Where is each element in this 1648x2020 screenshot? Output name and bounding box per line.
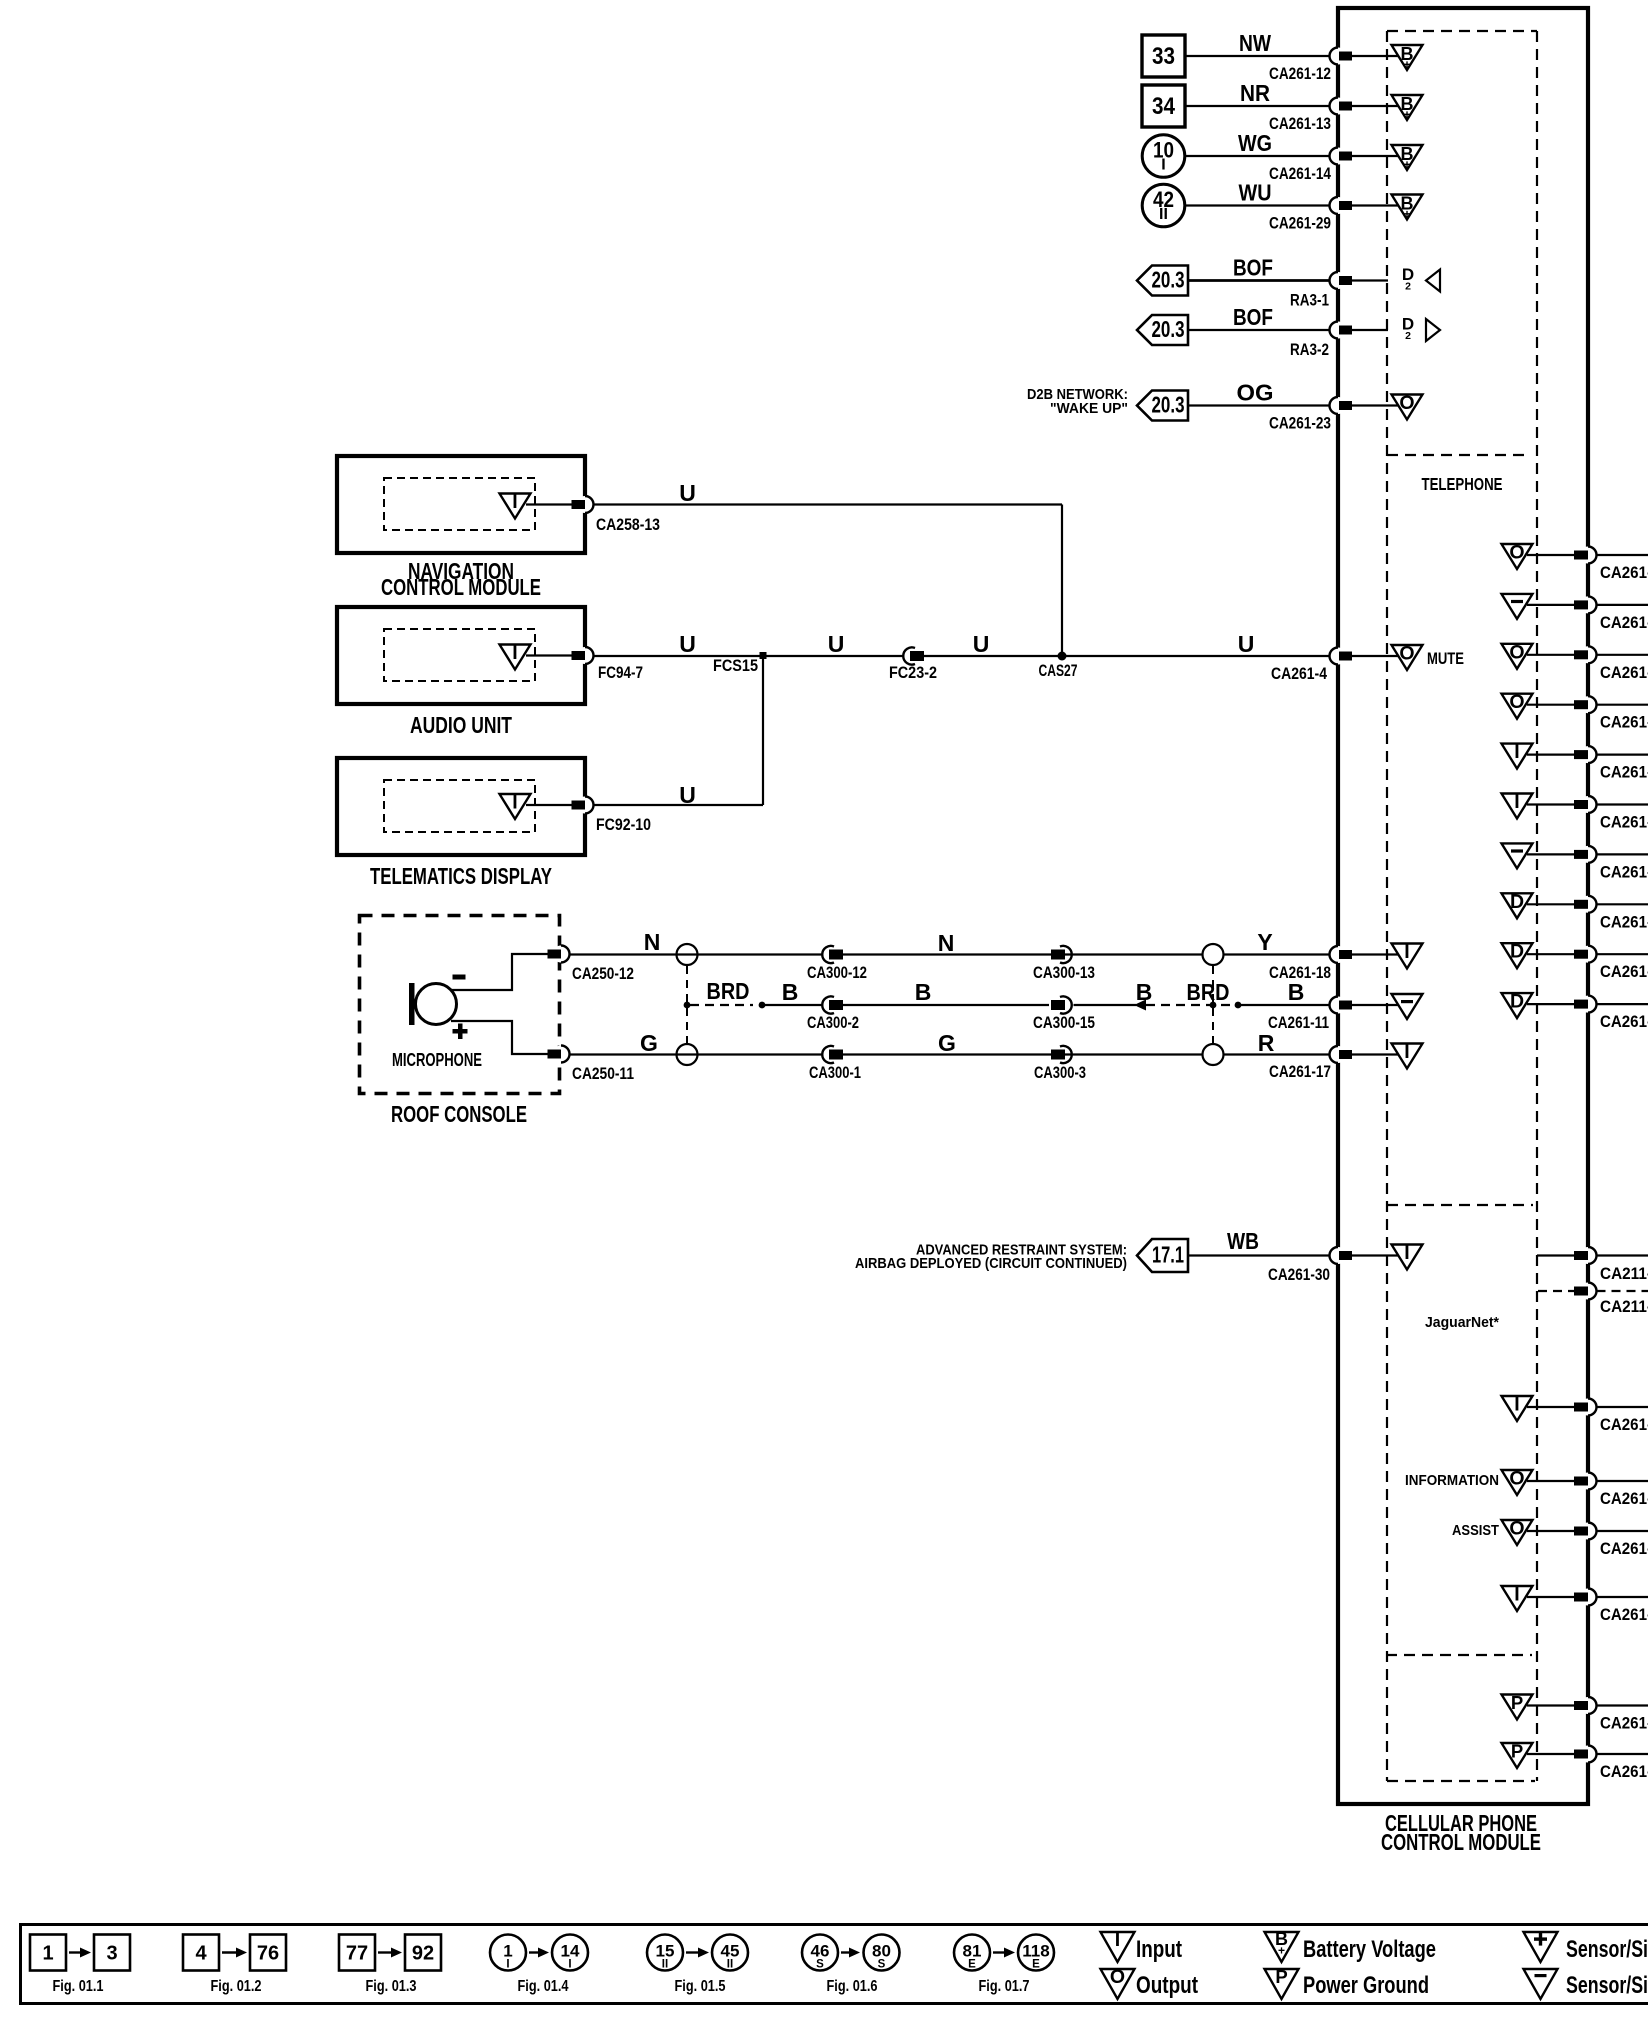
microphone minus wire [451, 954, 548, 990]
wire WU [1185, 180, 1330, 206]
svg-text:O: O [1399, 392, 1414, 414]
wire U audio to FCS15 [594, 631, 764, 657]
svg-text:I: I [506, 1959, 509, 1971]
svg-text:B: B [1288, 979, 1305, 1005]
wire B to module [1238, 979, 1330, 1005]
connector CA261 (right) [1574, 1697, 1648, 1733]
svg-text:CA261-11: CA261-11 [1268, 1014, 1329, 1032]
svg-text:FC23-2: FC23-2 [889, 664, 937, 682]
svg-text:JaguarNet*: JaguarNet* [1425, 1314, 1499, 1331]
wire B CA300-2 to CA300-15 [843, 979, 1049, 1005]
data symbol D2 left [1402, 265, 1440, 293]
svg-text:CA211-: CA211- [1600, 1298, 1648, 1316]
wire U CAS27 to module [1062, 631, 1330, 657]
svg-text:E: E [1032, 1959, 1040, 1971]
svg-text:CAS27: CAS27 [1039, 662, 1078, 680]
wire out right [1597, 1596, 1648, 1598]
svg-text:I: I [512, 792, 517, 814]
connector CA261 (right) [1574, 1523, 1648, 1559]
svg-text:CA261-4: CA261-4 [1271, 665, 1328, 683]
wire out right [1597, 704, 1648, 706]
wire to input symbol [1352, 1254, 1400, 1256]
wire out right [1597, 604, 1648, 606]
shield drain dashed left [686, 966, 688, 1044]
connector CA261 (right) [1574, 547, 1648, 583]
wire G CA300-3 to shield [843, 1030, 1203, 1056]
svg-text:AUDIO UNIT: AUDIO UNIT [410, 712, 512, 738]
wire to right connector [1527, 604, 1574, 606]
wire to right connector [1527, 1406, 1574, 1408]
wire to battery symbol [1352, 155, 1400, 157]
svg-text:II: II [1159, 206, 1168, 223]
connector CA261 (right) [1574, 796, 1648, 832]
legend fig 01.2 squares [183, 1935, 286, 1996]
svg-text:CA261-: CA261- [1600, 764, 1648, 782]
wire out right [1597, 853, 1648, 855]
svg-text:CA300-13: CA300-13 [1033, 964, 1095, 982]
wire U telematics [594, 782, 764, 808]
shield drain dashed right [1212, 966, 1214, 1044]
jaguarnet input symbol I [1502, 1394, 1533, 1422]
wire to right connector [1527, 803, 1574, 805]
svg-text:CA261-: CA261- [1600, 863, 1648, 881]
svg-text:D: D [1510, 991, 1524, 1013]
connector CA300-3 [1034, 1046, 1086, 1082]
splice dot on drain [684, 1002, 691, 1009]
svg-text:Input: Input [1136, 1936, 1182, 1963]
svg-text:B: B [782, 979, 799, 1005]
wire N roof console to CA300-12 [570, 929, 823, 955]
connector CA261 (right) [1574, 1399, 1648, 1435]
svg-text:17.1: 17.1 [1152, 1242, 1184, 1268]
telematics internal wire [526, 804, 572, 806]
wire CA211 row 1 [1537, 1254, 1574, 1256]
telephone data symbol D [1502, 941, 1533, 969]
svg-text:3: 3 [106, 1943, 117, 1965]
microphone plus mark [453, 1024, 468, 1040]
connector CA261 (right) [1574, 696, 1648, 732]
battery voltage symbol B+ [1392, 144, 1423, 172]
shield ring right N/Y [1203, 944, 1224, 965]
svg-text:CA261-: CA261- [1600, 614, 1648, 632]
connector CA211 (right, row 2) [1574, 1283, 1648, 1317]
label AUDIO UNIT [410, 712, 512, 738]
svg-text:G: G [938, 1030, 956, 1056]
wire stub RA3-2 [1352, 329, 1388, 331]
svg-text:BOF: BOF [1233, 304, 1273, 330]
svg-text:II: II [662, 1959, 668, 1971]
svg-text:CA261-30: CA261-30 [1268, 1266, 1330, 1284]
svg-text:20.3: 20.3 [1152, 267, 1185, 293]
connector CA261 (right) [1574, 646, 1648, 682]
svg-text:Fig. 01.6: Fig. 01.6 [827, 1978, 878, 1995]
component box ROOF CONSOLE (dashed) [360, 916, 560, 1094]
svg-text:CA261-: CA261- [1600, 1715, 1648, 1733]
svg-text:P: P [1511, 1692, 1523, 1713]
connector CA261-4 [1271, 648, 1352, 684]
svg-text:CA261-: CA261- [1600, 1540, 1648, 1558]
wire to right connector [1527, 853, 1574, 855]
connector CA261-18 [1269, 946, 1352, 982]
connector CA261 (right) [1574, 896, 1648, 932]
node 34 (in-line connector square) [1142, 85, 1185, 127]
connector CA261-17 [1269, 1046, 1352, 1081]
shield ring left G [677, 1044, 698, 1065]
svg-text:Fig. 01.5: Fig. 01.5 [675, 1978, 726, 1995]
module box: CELLULAR PHONE CONTROL MODULE outline [1338, 8, 1588, 1804]
shield ring right G/R [1203, 1044, 1224, 1065]
svg-text:O: O [1110, 1966, 1125, 1988]
wire to right connector [1527, 554, 1574, 556]
connector CA261-23 [1269, 397, 1352, 433]
wire to right connector [1527, 1480, 1574, 1482]
svg-text:O: O [1509, 1468, 1524, 1490]
svg-text:P: P [1511, 1741, 1523, 1762]
telephone data symbol D [1502, 891, 1533, 919]
svg-text:I: I [1115, 1929, 1120, 1951]
svg-text:CA250-11: CA250-11 [572, 1065, 634, 1083]
svg-text:WU: WU [1239, 180, 1272, 206]
svg-text:Fig. 01.7: Fig. 01.7 [979, 1978, 1030, 1995]
svg-text:CA261-23: CA261-23 [1269, 415, 1331, 433]
wire to right connector [1527, 903, 1574, 905]
connector CA261 (right) [1574, 1589, 1648, 1625]
svg-text:CONTROL MODULE: CONTROL MODULE [1381, 1829, 1541, 1855]
svg-text:I: I [568, 1959, 571, 1971]
svg-text:2: 2 [1405, 330, 1411, 342]
legend fig 01.4 circles [490, 1935, 588, 1996]
connector CA261 (right) [1574, 946, 1648, 982]
wire to right connector [1527, 704, 1574, 706]
wire to battery symbol [1352, 204, 1400, 206]
svg-text:Output: Output [1136, 1972, 1198, 1999]
svg-text:I: I [512, 642, 517, 664]
wire to input symbol [1352, 1053, 1400, 1055]
connector CA261 (right) [1574, 746, 1648, 782]
svg-text:Fig. 01.3: Fig. 01.3 [366, 1978, 417, 1995]
svg-text:Fig. 01.2: Fig. 01.2 [211, 1978, 262, 1995]
svg-text:I: I [1161, 157, 1165, 174]
svg-text:U: U [679, 782, 696, 808]
wire out right [1597, 753, 1648, 755]
battery voltage symbol B+ [1392, 94, 1423, 122]
connector RA3-1 [1290, 272, 1352, 310]
svg-text:CA261-17: CA261-17 [1269, 1063, 1331, 1081]
svg-text:N: N [938, 930, 955, 956]
wire NR [1185, 80, 1330, 106]
nav internal wire [526, 503, 572, 505]
wire to right connector [1527, 953, 1574, 955]
connector CA300-1 [809, 1046, 861, 1082]
jaguarnet input symbol I [1502, 1584, 1533, 1612]
svg-text:CA261-13: CA261-13 [1269, 115, 1331, 133]
svg-text:CA258-13: CA258-13 [596, 516, 660, 534]
wire out right [1597, 1480, 1648, 1482]
wire U vertical to CAS27 [1061, 505, 1063, 657]
svg-text:MICROPHONE: MICROPHONE [392, 1050, 482, 1070]
component box TELEMATICS DISPLAY [337, 758, 585, 855]
telephone signal ground symbol [1502, 843, 1533, 868]
telephone output symbol O [1502, 542, 1533, 570]
dashed divider below jaguarnet section [1386, 1654, 1532, 1656]
svg-text:I: I [1514, 791, 1519, 813]
dashed divider below battery/data section [1387, 454, 1531, 456]
wire WB [1188, 1228, 1330, 1256]
wire out right [1597, 1704, 1648, 1706]
svg-text:INFORMATION: INFORMATION [1405, 1472, 1499, 1489]
connector RA3-2 [1290, 322, 1352, 360]
drain arrowhead [1134, 1000, 1146, 1011]
svg-text:+: + [1278, 1944, 1285, 1958]
svg-text:92: 92 [412, 1943, 434, 1965]
connector CA258-13 [572, 496, 661, 534]
nav input symbol I [500, 491, 531, 519]
svg-text:Power Ground: Power Ground [1303, 1972, 1429, 1999]
legend fig 01.6 circles [802, 1935, 900, 1996]
wire stub RA3-1 [1352, 279, 1388, 281]
svg-text:76: 76 [257, 1943, 279, 1965]
node 33 (in-line connector square) [1142, 35, 1185, 77]
data symbol D2 right [1402, 315, 1440, 343]
svg-text:O: O [1509, 542, 1524, 564]
wire Y to module [1224, 929, 1330, 955]
svg-text:77: 77 [346, 1943, 368, 1965]
svg-text:D: D [1510, 891, 1524, 913]
svg-text:+: + [1403, 207, 1410, 221]
svg-text:Fig. 01.4: Fig. 01.4 [518, 1978, 569, 1995]
off-page arrow 20.3 (D2B network) [1137, 391, 1188, 421]
svg-text:MUTE: MUTE [1427, 650, 1464, 668]
svg-text:CA300-15: CA300-15 [1033, 1014, 1095, 1032]
wire B drain to CA300-2 [762, 979, 823, 1005]
wire BOF (RA3-1) [1188, 255, 1330, 281]
svg-text:U: U [828, 631, 845, 657]
wire N CA300-13 to shield [843, 930, 1203, 956]
svg-text:Fig. 01.1: Fig. 01.1 [53, 1978, 104, 1995]
wire out right [1597, 1406, 1648, 1408]
wire U FCS15 to FC23-2 [766, 631, 904, 657]
svg-text:D: D [1510, 941, 1524, 963]
legend fig 01.5 circles [647, 1935, 748, 1996]
svg-text:BRD: BRD [1187, 979, 1230, 1005]
power ground symbol P [1502, 1692, 1533, 1720]
connector CA261 (right) [1574, 1473, 1648, 1509]
svg-text:CA261-: CA261- [1600, 1606, 1648, 1624]
legend output symbol [1101, 1966, 1199, 1999]
connector CA211 (right, row 1) [1574, 1247, 1648, 1283]
connector CA300-2 [807, 996, 859, 1032]
connector CA250-11 [548, 1046, 635, 1084]
label ROOF CONSOLE [391, 1101, 527, 1127]
svg-text:Battery Voltage: Battery Voltage [1303, 1936, 1436, 1963]
svg-text:I: I [1514, 1394, 1519, 1416]
svg-text:CA261-14: CA261-14 [1269, 165, 1332, 183]
svg-text:I: I [1514, 1584, 1519, 1606]
svg-text:ROOF CONSOLE: ROOF CONSOLE [391, 1101, 527, 1127]
connector FC23-2 [889, 647, 937, 682]
wire to mute symbol [1352, 655, 1400, 657]
connector CA261-14 [1269, 148, 1352, 184]
dashed box right edge [1536, 31, 1538, 1781]
svg-text:O: O [1509, 641, 1524, 663]
connector CA261-30 [1268, 1247, 1352, 1284]
legend fig 01.1 squares [30, 1935, 130, 1996]
svg-text:CA261-: CA261- [1600, 1416, 1648, 1434]
legend bar frame [21, 1925, 1648, 2004]
splice FCS15 [713, 652, 767, 675]
svg-text:CA300-1: CA300-1 [809, 1064, 861, 1082]
svg-text:NW: NW [1239, 30, 1271, 56]
wire out right [1597, 1003, 1648, 1005]
battery voltage symbol B+ [1392, 44, 1423, 72]
legend fig 01.3 squares [339, 1935, 441, 1996]
legend sensor/signal minus symbol [1524, 1969, 1648, 1999]
wire out right [1597, 554, 1648, 556]
svg-text:BRD: BRD [707, 978, 750, 1004]
connector CA250-12 [548, 946, 635, 984]
off-page arrow 20.3 (RA3-1) [1137, 266, 1188, 296]
power ground symbol P [1502, 1741, 1533, 1769]
svg-text:U: U [679, 631, 696, 657]
telephone signal ground symbol [1502, 594, 1533, 619]
svg-text:U: U [679, 480, 696, 506]
mute output symbol O [1392, 643, 1465, 671]
svg-text:2: 2 [1405, 281, 1411, 293]
svg-text:"WAKE UP": "WAKE UP" [1050, 400, 1128, 417]
wire B to arrow [1074, 979, 1153, 1005]
svg-text:CA261-: CA261- [1600, 963, 1648, 981]
wire U FC23-2 to CAS27 [924, 631, 1062, 657]
connector CA300-12 [807, 946, 867, 982]
audio internal wire [526, 654, 572, 656]
dashed box bottom edge [1387, 1780, 1535, 1782]
wire NW [1185, 30, 1330, 56]
connector FC94-7 [572, 647, 644, 682]
label TELEPHONE [1422, 474, 1503, 494]
connector CA261 (right) [1574, 1746, 1648, 1782]
wire out right [1597, 803, 1648, 805]
svg-text:O: O [1509, 1518, 1524, 1540]
wire out right [1597, 654, 1648, 656]
wire G roof console to CA300-1 [570, 1030, 823, 1056]
svg-text:Y: Y [1257, 929, 1272, 955]
svg-text:I: I [1404, 1041, 1409, 1063]
svg-text:20.3: 20.3 [1152, 392, 1185, 418]
wire OG [1188, 380, 1330, 406]
battery voltage symbol B+ [1392, 194, 1423, 222]
svg-text:CA211-: CA211- [1600, 1265, 1648, 1283]
wire BOF (RA3-2) [1188, 304, 1330, 330]
svg-text:Sensor/Si: Sensor/Si [1566, 1936, 1648, 1963]
telephone input symbol I [1502, 791, 1533, 819]
microphone plus wire [451, 1021, 548, 1054]
legend input symbol [1101, 1929, 1183, 1963]
wire out right [1597, 1530, 1648, 1532]
svg-text:AIRBAG DEPLOYED (CIRCUIT CONTI: AIRBAG DEPLOYED (CIRCUIT CONTINUED) [855, 1255, 1127, 1272]
connector CA261 (right) [1574, 596, 1648, 632]
svg-text:CA261-: CA261- [1600, 1763, 1648, 1781]
label CELLULAR PHONE CONTROL MODULE [1381, 1810, 1541, 1855]
svg-text:P: P [1275, 1966, 1287, 1987]
connector CA261-29 [1269, 197, 1352, 233]
legend power ground symbol [1265, 1966, 1430, 1999]
legend fig 01.7 circles [954, 1935, 1054, 1996]
component box NAVIGATION CONTROL MODULE [337, 456, 585, 553]
off-page arrow 17.1 [1137, 1239, 1188, 1272]
svg-text:1: 1 [42, 1943, 53, 1965]
jaguarnet output symbol O ASSIST [1452, 1518, 1533, 1546]
splice CAS27 [1039, 652, 1078, 681]
svg-text:CA261-: CA261- [1600, 913, 1648, 931]
svg-text:U: U [1238, 631, 1255, 657]
component box AUDIO UNIT [337, 607, 585, 704]
input symbol I [1392, 1242, 1423, 1270]
input symbol I [1392, 1041, 1423, 1069]
connector CA261 (right) [1574, 996, 1648, 1032]
svg-text:CA261-: CA261- [1600, 1490, 1648, 1508]
svg-text:FC94-7: FC94-7 [598, 664, 643, 682]
svg-text:+: + [1403, 108, 1410, 122]
connector FC92-10 [572, 797, 652, 835]
legend sensor/signal plus symbol [1524, 1932, 1648, 1963]
label NAVIGATION CONTROL MODULE [381, 558, 541, 600]
wire out right [1597, 1753, 1648, 1755]
svg-text:R: R [1258, 1030, 1275, 1056]
svg-text:CA250-12: CA250-12 [572, 965, 634, 983]
wire CA211 row 2 dashed [1538, 1290, 1574, 1292]
svg-text:TELEMATICS DISPLAY: TELEMATICS DISPLAY [370, 863, 552, 889]
svg-text:E: E [968, 1959, 976, 1971]
wire U from navigation module [594, 480, 1063, 506]
svg-text:TELEPHONE: TELEPHONE [1422, 474, 1503, 494]
wire U vertical to FCS15 [762, 656, 764, 805]
label JaguarNet* [1425, 1314, 1499, 1331]
splice dot on right drain [1210, 1002, 1217, 1009]
connector CA300-15 [1033, 996, 1095, 1032]
svg-text:BOF: BOF [1233, 255, 1273, 281]
drain dot [759, 1002, 766, 1009]
wire out right [1597, 903, 1648, 905]
wire out right row 2 dashed [1597, 1290, 1648, 1292]
telephone output symbol O [1502, 691, 1533, 719]
dashed box: telephone/jaguarnet sections left edge [1386, 31, 1388, 1781]
node 42-II (fuse circle) [1142, 184, 1185, 227]
svg-text:CONTROL MODULE: CONTROL MODULE [381, 574, 541, 600]
svg-text:S: S [878, 1959, 886, 1971]
wire to battery symbol [1352, 55, 1400, 57]
dashed divider below telephone section [1387, 1204, 1533, 1206]
svg-text:RA3-1: RA3-1 [1290, 292, 1329, 310]
svg-text:II: II [727, 1959, 733, 1971]
svg-text:ASSIST: ASSIST [1452, 1522, 1499, 1539]
wire WG [1185, 130, 1330, 156]
wire out right row 1 [1597, 1254, 1648, 1256]
svg-text:FCS15: FCS15 [713, 657, 758, 675]
signal ground symbol [1392, 994, 1423, 1019]
off-page arrow 20.3 (RA3-2) [1137, 315, 1188, 345]
svg-text:+: + [1403, 58, 1410, 72]
connector CA300-13 [1033, 946, 1095, 982]
svg-text:CA261-: CA261- [1600, 714, 1648, 732]
wire to right connector [1527, 753, 1574, 755]
wire to right connector [1527, 1530, 1574, 1532]
wire to output symbol [1352, 404, 1400, 406]
legend battery voltage symbol [1265, 1929, 1437, 1963]
svg-text:CA261-: CA261- [1600, 664, 1648, 682]
wire out right [1597, 953, 1648, 955]
svg-text:OG: OG [1237, 380, 1274, 406]
shield ring left N [677, 944, 698, 965]
